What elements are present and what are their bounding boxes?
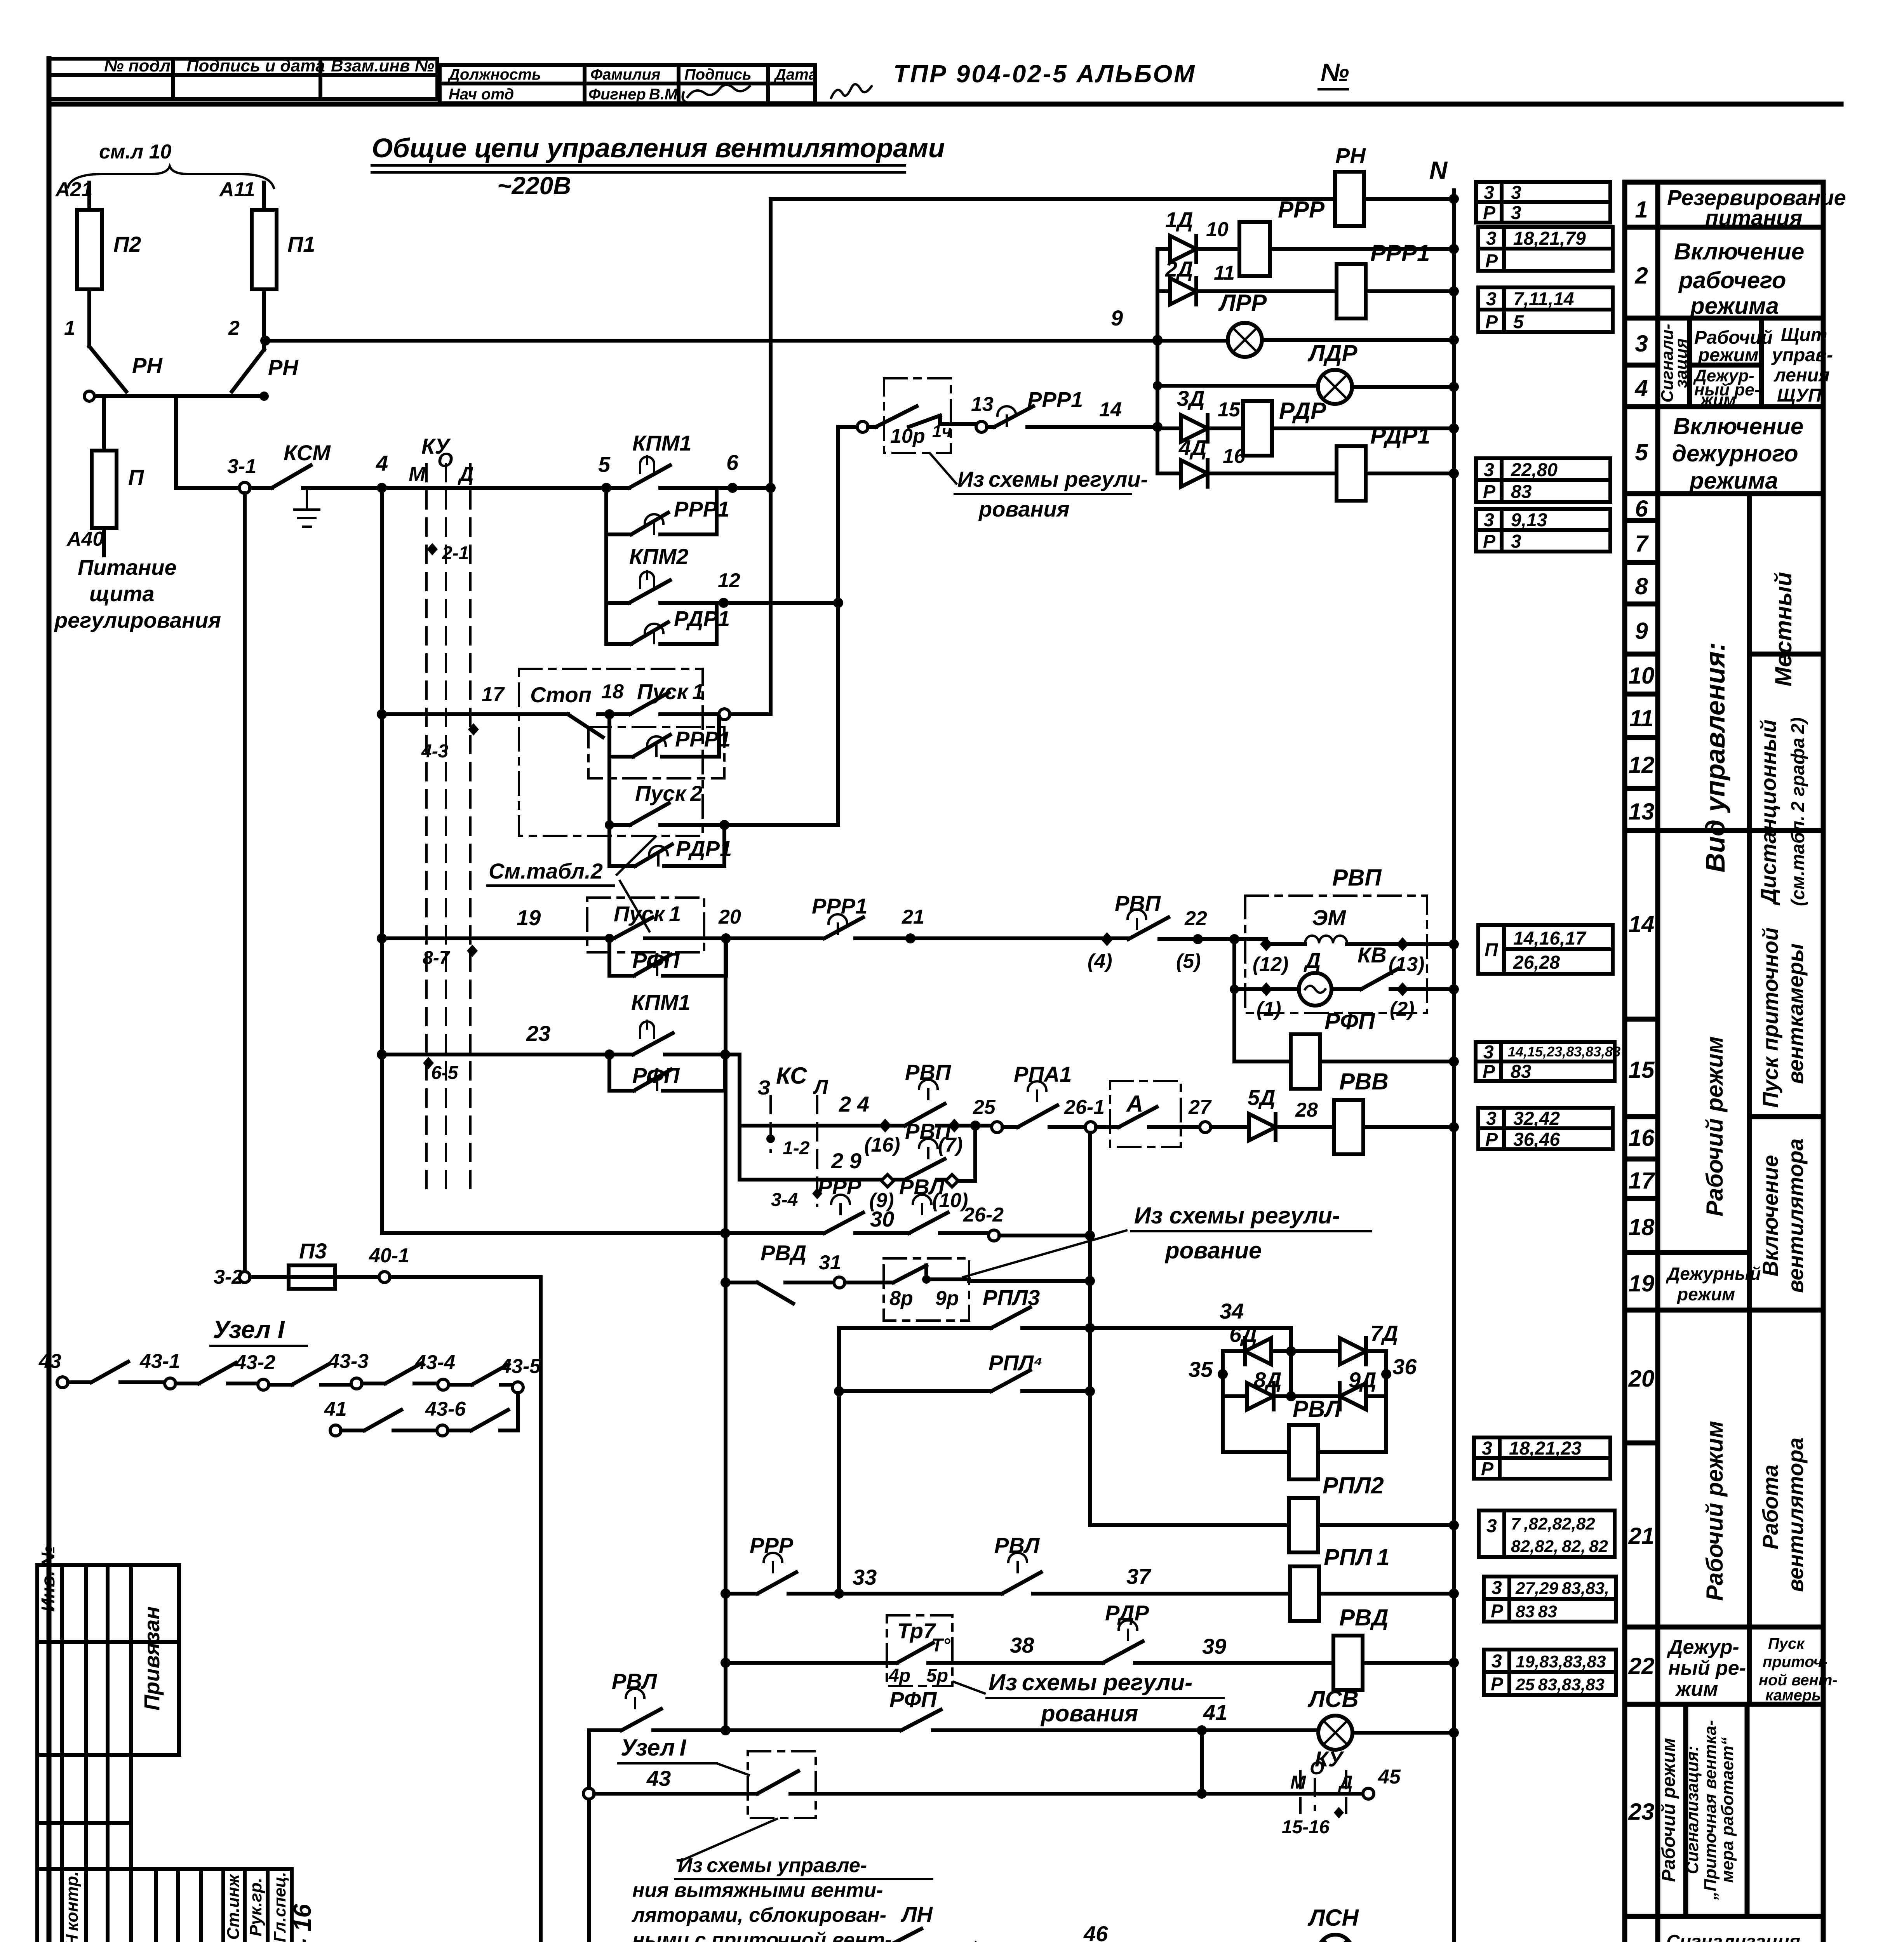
svg-text:А: А bbox=[1126, 1091, 1143, 1117]
marking table row2b bbox=[1478, 287, 1613, 332]
svg-text:33: 33 bbox=[853, 1565, 877, 1589]
svg-text:10: 10 bbox=[1629, 663, 1655, 689]
lamp ЛДР bbox=[1153, 340, 1459, 404]
contact РРР1 (20-21) bbox=[726, 894, 910, 938]
svg-text:РН: РН bbox=[1335, 143, 1366, 168]
svg-text:Фигнер В.М: Фигнер В.М bbox=[588, 86, 678, 103]
svg-text:Дежур-: Дежур- bbox=[1667, 1636, 1739, 1658]
contact РДР1 parallel to КПМ2 bbox=[606, 603, 730, 644]
svg-text:РВП: РВП bbox=[1332, 865, 1382, 891]
svg-text:Инв. №: Инв. № bbox=[38, 1546, 59, 1612]
contact РПЛ3 bbox=[839, 1285, 1291, 1333]
svg-text:7Д: 7Д bbox=[1370, 1321, 1398, 1345]
node 21 bbox=[905, 933, 915, 943]
svg-text:11: 11 bbox=[1629, 705, 1653, 731]
svg-text:43: 43 bbox=[38, 1350, 61, 1373]
callout text из схемы управления вытяжными bbox=[631, 1819, 932, 1942]
svg-text:35: 35 bbox=[1189, 1357, 1213, 1382]
svg-text:6-5: 6-5 bbox=[431, 1063, 459, 1083]
svg-text:18,21,23: 18,21,23 bbox=[1509, 1438, 1582, 1459]
neutral line N bbox=[1429, 156, 1454, 1942]
marking table row21 bbox=[1479, 1510, 1615, 1557]
diode 5Д bbox=[1211, 1085, 1334, 1140]
dash-dot box time relay РВП bbox=[1245, 865, 1427, 1013]
svg-text:12: 12 bbox=[1629, 752, 1655, 778]
relay coil РПЛ1 bbox=[1290, 1544, 1459, 1621]
relay coil РВЛ (bridge) bbox=[1223, 1396, 1386, 1479]
svg-text:16: 16 bbox=[1629, 1125, 1655, 1151]
svg-text:27: 27 bbox=[1188, 1096, 1212, 1119]
svg-text:1-2: 1-2 bbox=[783, 1138, 810, 1159]
svg-text:ЩУП: ЩУП bbox=[1777, 385, 1822, 406]
svg-text:3-4: 3-4 bbox=[771, 1190, 798, 1210]
svg-text:83: 83 bbox=[1511, 482, 1532, 502]
wire row 23 bbox=[377, 1049, 387, 1060]
svg-text:А11: А11 bbox=[219, 178, 255, 201]
svg-text:4: 4 bbox=[1634, 375, 1648, 401]
svg-text:Включение: Включение bbox=[1674, 238, 1804, 265]
svg-text:А21: А21 bbox=[55, 178, 92, 201]
wire row23 to КС riser bbox=[725, 1055, 740, 1180]
riser 41 to узел row bbox=[1200, 1730, 1204, 1794]
svg-text:Рук.гр.: Рук.гр. bbox=[246, 1878, 265, 1937]
svg-text:(5): (5) bbox=[1176, 950, 1201, 973]
svg-text:Из схемы регули-: Из схемы регули- bbox=[989, 1669, 1192, 1695]
svg-text:28: 28 bbox=[1295, 1099, 1318, 1121]
note см.табл.2 bbox=[487, 837, 656, 931]
svg-text:ЛН: ЛН bbox=[900, 1902, 933, 1926]
svg-text:ТПР 904-02-5 АЛЬБОМ: ТПР 904-02-5 АЛЬБОМ bbox=[893, 60, 1196, 88]
svg-text:8Д: 8Д bbox=[1254, 1368, 1282, 1392]
svg-text:41: 41 bbox=[1203, 1700, 1227, 1724]
svg-text:режима: режима bbox=[1689, 468, 1778, 494]
contact КПМ2 bbox=[606, 534, 724, 603]
svg-text:20: 20 bbox=[1628, 1366, 1655, 1392]
title block upper table bbox=[37, 1546, 179, 1869]
svg-text:РДР1: РДР1 bbox=[674, 606, 730, 631]
svg-text:N: N bbox=[1429, 156, 1448, 184]
svg-text:Р: Р bbox=[1483, 1061, 1495, 1082]
svg-text:РВД: РВД bbox=[761, 1241, 806, 1265]
dashed box 8р 9р bbox=[845, 1258, 969, 1321]
top thick separator line bbox=[49, 102, 1841, 107]
contact РРР1 below Пуск1 bbox=[609, 714, 731, 757]
svg-text:22: 22 bbox=[1184, 907, 1207, 930]
svg-text:4: 4 bbox=[376, 451, 388, 475]
svg-text:7: 7 bbox=[1635, 531, 1649, 557]
svg-text:Р: Р bbox=[1485, 251, 1498, 271]
wire row 41 РВЛ/РФП bbox=[589, 1728, 621, 1732]
wire from РДР1 riser row 13-14 bbox=[838, 427, 857, 603]
contact РВД bbox=[757, 1241, 834, 1303]
wire РВД row bbox=[721, 1277, 731, 1288]
svg-text:Включение: Включение bbox=[1673, 413, 1803, 439]
dashed box Пуск1 (row 19) bbox=[587, 898, 726, 952]
svg-text:6: 6 bbox=[1635, 496, 1648, 522]
dashed box 10р with contact bbox=[868, 378, 976, 453]
svg-text:РН: РН bbox=[268, 355, 299, 379]
svg-text:П: П bbox=[128, 465, 144, 489]
svg-text:9Д: 9Д bbox=[1349, 1368, 1377, 1392]
svg-text:39: 39 bbox=[1202, 1634, 1226, 1658]
contact РРР1 parallel to КПМ1 bbox=[606, 488, 729, 534]
wire node4 vertical bbox=[380, 488, 384, 1233]
svg-text:М: М bbox=[409, 463, 426, 486]
svg-text:5: 5 bbox=[1635, 439, 1648, 465]
svg-text:25: 25 bbox=[973, 1096, 996, 1119]
svg-text:1Д: 1Д bbox=[1165, 207, 1193, 232]
svg-text:Щит: Щит bbox=[1781, 325, 1827, 345]
svg-text:3: 3 bbox=[1486, 289, 1497, 310]
wire joining РН contacts bbox=[89, 394, 264, 398]
svg-text:РРР1: РРР1 bbox=[674, 497, 729, 521]
marking table row20 bbox=[1474, 1437, 1610, 1479]
svg-text:питания: питания bbox=[1705, 205, 1802, 230]
svg-text:(16): (16) bbox=[864, 1134, 900, 1156]
dashed box Стоп/Пуск1/Пуск2 bbox=[519, 669, 703, 836]
svg-text:45: 45 bbox=[1378, 1766, 1401, 1788]
svg-text:19: 19 bbox=[1629, 1270, 1655, 1296]
svg-text:2Д: 2Д bbox=[1165, 257, 1193, 281]
svg-text:13: 13 bbox=[1629, 799, 1655, 825]
svg-text:30: 30 bbox=[870, 1207, 894, 1231]
svg-text:22: 22 bbox=[1628, 1653, 1655, 1679]
svg-text:Местный: Местный bbox=[1770, 572, 1796, 687]
node 3-2 with fuse П3 bbox=[214, 1239, 541, 1942]
svg-text:3: 3 bbox=[1486, 1108, 1497, 1129]
svg-text:19,83,83,83: 19,83,83,83 bbox=[1516, 1652, 1606, 1671]
contact РН right bbox=[232, 346, 299, 392]
svg-text:3: 3 bbox=[1482, 1438, 1492, 1459]
svg-text:Р: Р bbox=[1491, 1601, 1504, 1622]
svg-text:Р: Р bbox=[1485, 312, 1498, 332]
svg-text:ния вытяжными венти-: ния вытяжными венти- bbox=[632, 1879, 883, 1902]
svg-text:4р: 4р bbox=[888, 1665, 910, 1686]
svg-text:2-1: 2-1 bbox=[442, 543, 469, 564]
svg-text:щита: щита bbox=[89, 581, 155, 606]
relay coil РВВ bbox=[1334, 1068, 1459, 1154]
Узел I label (lower) bbox=[618, 1735, 749, 1775]
svg-text:РРР1: РРР1 bbox=[1370, 240, 1430, 266]
svg-text:режима: режима bbox=[1690, 293, 1779, 319]
svg-text:рование: рование bbox=[1164, 1237, 1262, 1263]
contact КСМ bbox=[272, 440, 331, 527]
lamp ЛСН bbox=[1307, 1905, 1459, 1942]
svg-text:2: 2 bbox=[228, 317, 240, 339]
svg-text:17333 - 16: 17333 - 16 bbox=[288, 1904, 316, 1942]
contact Стоп bbox=[530, 682, 609, 737]
main bus from node 2 and lamp ЛРР bbox=[265, 290, 1459, 357]
dashed box contact 43 bbox=[594, 1751, 1202, 1818]
svg-text:П1: П1 bbox=[287, 232, 315, 256]
svg-text:Подпись и дата: Подпись и дата bbox=[186, 56, 325, 75]
svg-text:83 83: 83 83 bbox=[1516, 1602, 1557, 1621]
svg-text:21: 21 bbox=[1628, 1523, 1655, 1549]
svg-text:Н контр.: Н контр. bbox=[63, 1871, 82, 1942]
wire node3-1 vertical to 3-2 bbox=[243, 493, 247, 1277]
svg-text:1: 1 bbox=[1635, 197, 1648, 223]
svg-text:управ-: управ- bbox=[1771, 345, 1833, 365]
header table B (Должность / Фамилия / Подпись / Дата) bbox=[440, 65, 817, 103]
contact РДР1 below Пуск2 bbox=[609, 825, 732, 866]
svg-text:Вид управления:: Вид управления: bbox=[1700, 642, 1730, 873]
svg-text:3Д: 3Д bbox=[1177, 386, 1205, 411]
svg-text:12: 12 bbox=[718, 569, 740, 592]
svg-text:25 83,83,83: 25 83,83,83 bbox=[1515, 1675, 1605, 1694]
svg-text:4-3: 4-3 bbox=[421, 741, 449, 762]
svg-text:КПМ2: КПМ2 bbox=[629, 544, 689, 569]
svg-text:2 4: 2 4 bbox=[839, 1092, 869, 1116]
diode 3Д and relay coil РДР bbox=[1157, 386, 1459, 456]
marking table row22 bbox=[1484, 1650, 1616, 1695]
svg-text:жим: жим bbox=[1700, 390, 1736, 409]
svg-text:вентилятора: вентилятора bbox=[1783, 1437, 1808, 1592]
svg-text:7 ,82,82,82: 7 ,82,82,82 bbox=[1511, 1514, 1595, 1533]
relay coil РН bbox=[771, 143, 1459, 226]
svg-text:10: 10 bbox=[1206, 218, 1229, 241]
left riser node20 column bbox=[724, 938, 727, 1730]
svg-text:14,16,17: 14,16,17 bbox=[1513, 928, 1587, 949]
svg-text:Рабочий режим: Рабочий режим bbox=[1702, 1036, 1728, 1216]
node 6 bbox=[727, 483, 738, 493]
svg-text:Из схемы управле-: Из схемы управле- bbox=[678, 1854, 867, 1877]
svg-text:РН: РН bbox=[132, 353, 163, 378]
svg-text:вентилятора: вентилятора bbox=[1783, 1138, 1808, 1293]
svg-text:См.табл.2: См.табл.2 bbox=[489, 859, 603, 883]
svg-text:Рабочий режим: Рабочий режим bbox=[1659, 1738, 1679, 1882]
svg-text:5: 5 bbox=[1513, 312, 1524, 332]
wire node6 to riser bbox=[733, 486, 771, 490]
svg-text:Р: Р bbox=[1485, 1129, 1498, 1150]
svg-text:9: 9 bbox=[1635, 618, 1648, 644]
svg-text:Питание: Питание bbox=[78, 555, 177, 579]
svg-text:П2: П2 bbox=[113, 232, 141, 256]
svg-text:3: 3 bbox=[1511, 203, 1521, 223]
svg-text:15: 15 bbox=[1218, 398, 1241, 421]
svg-text:15: 15 bbox=[1629, 1057, 1655, 1083]
svg-text:14,15,23,83,83,83: 14,15,23,83,83,83 bbox=[1508, 1044, 1620, 1060]
svg-text:Привязан: Привязан bbox=[139, 1606, 164, 1711]
node 20 bbox=[721, 933, 731, 943]
svg-text:Фамилия: Фамилия bbox=[590, 66, 660, 83]
svg-text:КПМ1: КПМ1 bbox=[632, 431, 692, 455]
contact РВП (row 29) bbox=[905, 1119, 975, 1212]
svg-text:О: О bbox=[1310, 1758, 1324, 1778]
wire row 21-22 with РВП time contact bbox=[910, 891, 1201, 973]
svg-text:Дата: Дата bbox=[774, 66, 817, 83]
svg-text:№: № bbox=[1321, 58, 1349, 86]
wire row 29 bbox=[740, 1178, 905, 1182]
wire row 17-18 bbox=[377, 709, 387, 719]
node 18 bbox=[604, 709, 614, 719]
svg-text:19: 19 bbox=[517, 905, 541, 930]
node 4 bbox=[377, 483, 387, 493]
svg-text:Должность: Должность bbox=[447, 66, 541, 83]
svg-text:зация: зация bbox=[1672, 338, 1691, 388]
svg-text:Стоп: Стоп bbox=[530, 682, 592, 707]
left riser for diode rows bbox=[1156, 249, 1159, 473]
fuse П1 bbox=[228, 183, 315, 341]
svg-text:16: 16 bbox=[1223, 445, 1246, 468]
svg-text:40-1: 40-1 bbox=[369, 1244, 409, 1267]
svg-text:ными с приточной вент-: ными с приточной вент- bbox=[632, 1929, 892, 1942]
svg-text:(1): (1) bbox=[1257, 998, 1281, 1020]
svg-text:режим: режим bbox=[1676, 1284, 1735, 1304]
svg-text:Д: Д bbox=[1304, 948, 1321, 973]
svg-text:3-1: 3-1 bbox=[227, 455, 256, 478]
svg-text:Пуск: Пуск bbox=[1768, 1635, 1805, 1652]
svg-text:приточ-: приточ- bbox=[1763, 1653, 1827, 1671]
svg-text:18: 18 bbox=[1629, 1214, 1655, 1240]
svg-text:38: 38 bbox=[1010, 1633, 1034, 1657]
svg-text:З: З bbox=[757, 1077, 770, 1099]
relay coil РВД bbox=[1333, 1604, 1459, 1690]
contact РФП below КПМ1 bbox=[609, 1055, 725, 1091]
svg-text:~220В: ~220В bbox=[497, 172, 571, 200]
svg-text:41: 41 bbox=[324, 1398, 347, 1420]
svg-text:43-3: 43-3 bbox=[328, 1350, 369, 1373]
svg-text:36: 36 bbox=[1392, 1354, 1417, 1379]
svg-text:Нач отд: Нач отд bbox=[449, 86, 514, 103]
svg-text:Р: Р bbox=[1483, 203, 1496, 223]
diode 1Д and relay coil РРР bbox=[1157, 197, 1459, 276]
svg-text:5р: 5р bbox=[926, 1665, 948, 1686]
svg-text:43-6: 43-6 bbox=[425, 1398, 466, 1420]
marking table П row14 bbox=[1478, 925, 1613, 974]
handwritten mark bbox=[831, 84, 872, 98]
contact РРР (row 30) bbox=[818, 1175, 909, 1233]
marking table row5 bbox=[1476, 458, 1610, 502]
svg-text:23: 23 bbox=[526, 1021, 550, 1046]
header table A (№ подл / Подпись и дата / Взам.инв №) bbox=[49, 56, 437, 99]
contact КПМ1 bbox=[606, 431, 733, 488]
svg-text:43-2: 43-2 bbox=[235, 1351, 275, 1374]
callout из схемы регулирование bbox=[963, 1202, 1371, 1277]
svg-text:34: 34 bbox=[1220, 1299, 1244, 1323]
svg-text:4Д: 4Д bbox=[1178, 435, 1207, 460]
svg-text:9,13: 9,13 bbox=[1511, 510, 1547, 531]
svg-text:мера работает“: мера работает“ bbox=[1718, 1737, 1737, 1883]
svg-text:КС: КС bbox=[776, 1063, 808, 1089]
svg-text:9: 9 bbox=[1111, 306, 1123, 330]
svg-text:ЭМ: ЭМ bbox=[1312, 905, 1346, 930]
svg-text:РФП: РФП bbox=[1324, 1008, 1376, 1034]
svg-text:2: 2 bbox=[1634, 263, 1648, 289]
svg-text:П: П bbox=[1485, 940, 1498, 961]
svg-text:Пуск приточной: Пуск приточной bbox=[1758, 927, 1782, 1108]
svg-text:Включение: Включение bbox=[1758, 1155, 1782, 1277]
svg-text:8: 8 bbox=[1635, 573, 1648, 599]
svg-text:рования: рования bbox=[1040, 1700, 1138, 1726]
svg-text:КПМ1: КПМ1 bbox=[631, 990, 691, 1015]
wire row 30 bbox=[382, 1231, 824, 1235]
svg-text:ный ре-: ный ре- bbox=[1668, 1657, 1746, 1679]
svg-text:камеры: камеры bbox=[1765, 1687, 1825, 1704]
svg-text:РФП: РФП bbox=[632, 1063, 680, 1088]
lamp ЛСВ bbox=[1202, 1686, 1459, 1750]
svg-text:22,80: 22,80 bbox=[1511, 460, 1558, 480]
marking table row1 bbox=[1476, 182, 1610, 223]
contact КПМ1 (row 23) bbox=[609, 990, 725, 1055]
svg-text:1: 1 bbox=[64, 317, 75, 339]
svg-text:8р: 8р bbox=[889, 1287, 913, 1310]
svg-text:21: 21 bbox=[902, 906, 924, 928]
svg-text:РВВ: РВВ bbox=[1339, 1068, 1389, 1095]
svg-text:Из схемы регули-: Из схемы регули- bbox=[957, 467, 1148, 491]
svg-text:№ подл: № подл bbox=[104, 56, 171, 75]
svg-text:жим: жим bbox=[1675, 1678, 1718, 1700]
svg-text:РДР1: РДР1 bbox=[676, 836, 732, 861]
svg-text:Работа: Работа bbox=[1758, 1465, 1782, 1549]
svg-text:6: 6 bbox=[726, 450, 739, 475]
svg-text:РДР1: РДР1 bbox=[1370, 423, 1430, 449]
svg-text:2 9: 2 9 bbox=[831, 1148, 861, 1173]
svg-text:П3: П3 bbox=[299, 1239, 327, 1263]
svg-text:9р: 9р bbox=[935, 1287, 959, 1310]
contact РФП (row 41) bbox=[889, 1687, 1202, 1730]
wire row 38-39 bbox=[721, 1658, 731, 1668]
left frame border bbox=[47, 59, 52, 1942]
inner dashed box РРР1 bbox=[588, 727, 724, 778]
Узел I heading bbox=[211, 1316, 307, 1346]
node 2 bbox=[260, 336, 270, 346]
svg-text:Р: Р bbox=[1483, 482, 1496, 502]
svg-text:15-16: 15-16 bbox=[1282, 1817, 1330, 1838]
svg-text:РПЛ2: РПЛ2 bbox=[1323, 1472, 1384, 1498]
contact РФП below Пуск1 bbox=[605, 934, 726, 976]
svg-text:(см.табл. 2 графа 2): (см.табл. 2 графа 2) bbox=[1788, 717, 1808, 906]
node 5 bbox=[601, 483, 611, 493]
svg-text:18: 18 bbox=[601, 680, 624, 703]
svg-text:83: 83 bbox=[1511, 1061, 1532, 1082]
diode 2Д and relay coil РРР1 bbox=[1157, 240, 1459, 318]
marking table row5b bbox=[1476, 509, 1610, 552]
signature scribble bbox=[687, 85, 750, 97]
svg-text:46: 46 bbox=[1083, 1921, 1108, 1942]
diode bridge 6Д 7Д 8Д 9Д bbox=[1189, 1321, 1417, 1452]
wire row 19 bbox=[377, 933, 387, 943]
riser node22 down bbox=[1232, 939, 1236, 1061]
svg-text:РПЛ 1: РПЛ 1 bbox=[1324, 1544, 1390, 1570]
svg-text:(12): (12) bbox=[1253, 953, 1288, 976]
svg-text:3: 3 bbox=[1484, 510, 1494, 531]
node 3-1 bbox=[239, 482, 250, 493]
svg-text:Из схемы регули-: Из схемы регули- bbox=[1134, 1202, 1340, 1229]
svg-text:Пуск 1: Пуск 1 bbox=[637, 679, 704, 704]
svg-text:Гл.спец.: Гл.спец. bbox=[270, 1872, 289, 1942]
contact РРР1 (13-14) bbox=[987, 387, 1157, 427]
contact РПА1 (row 24) bbox=[1002, 1062, 1085, 1127]
svg-text:РВД: РВД bbox=[1339, 1604, 1389, 1631]
right annotation table grid bbox=[1625, 182, 1823, 1942]
svg-text:РДР: РДР bbox=[1279, 398, 1326, 424]
svg-text:11: 11 bbox=[1214, 262, 1235, 284]
svg-text:3: 3 bbox=[1511, 531, 1521, 552]
svg-text:А40: А40 bbox=[66, 528, 104, 550]
svg-text:РВП: РВП bbox=[1115, 891, 1161, 915]
svg-text:3: 3 bbox=[1484, 460, 1494, 480]
marking table row16 bbox=[1478, 1108, 1613, 1150]
dashed box Тр7 with contact bbox=[887, 1615, 1103, 1686]
svg-text:26,28: 26,28 bbox=[1513, 952, 1560, 973]
contact РПЛ4 bbox=[839, 1350, 1095, 1396]
node 22 bbox=[1193, 934, 1203, 944]
riser to узел I input bbox=[587, 1730, 591, 1942]
switch chain 43 bbox=[38, 1350, 541, 1393]
marking table row2 bbox=[1478, 227, 1613, 271]
svg-text:26-1: 26-1 bbox=[1064, 1096, 1105, 1119]
svg-text:3: 3 bbox=[1486, 228, 1497, 249]
